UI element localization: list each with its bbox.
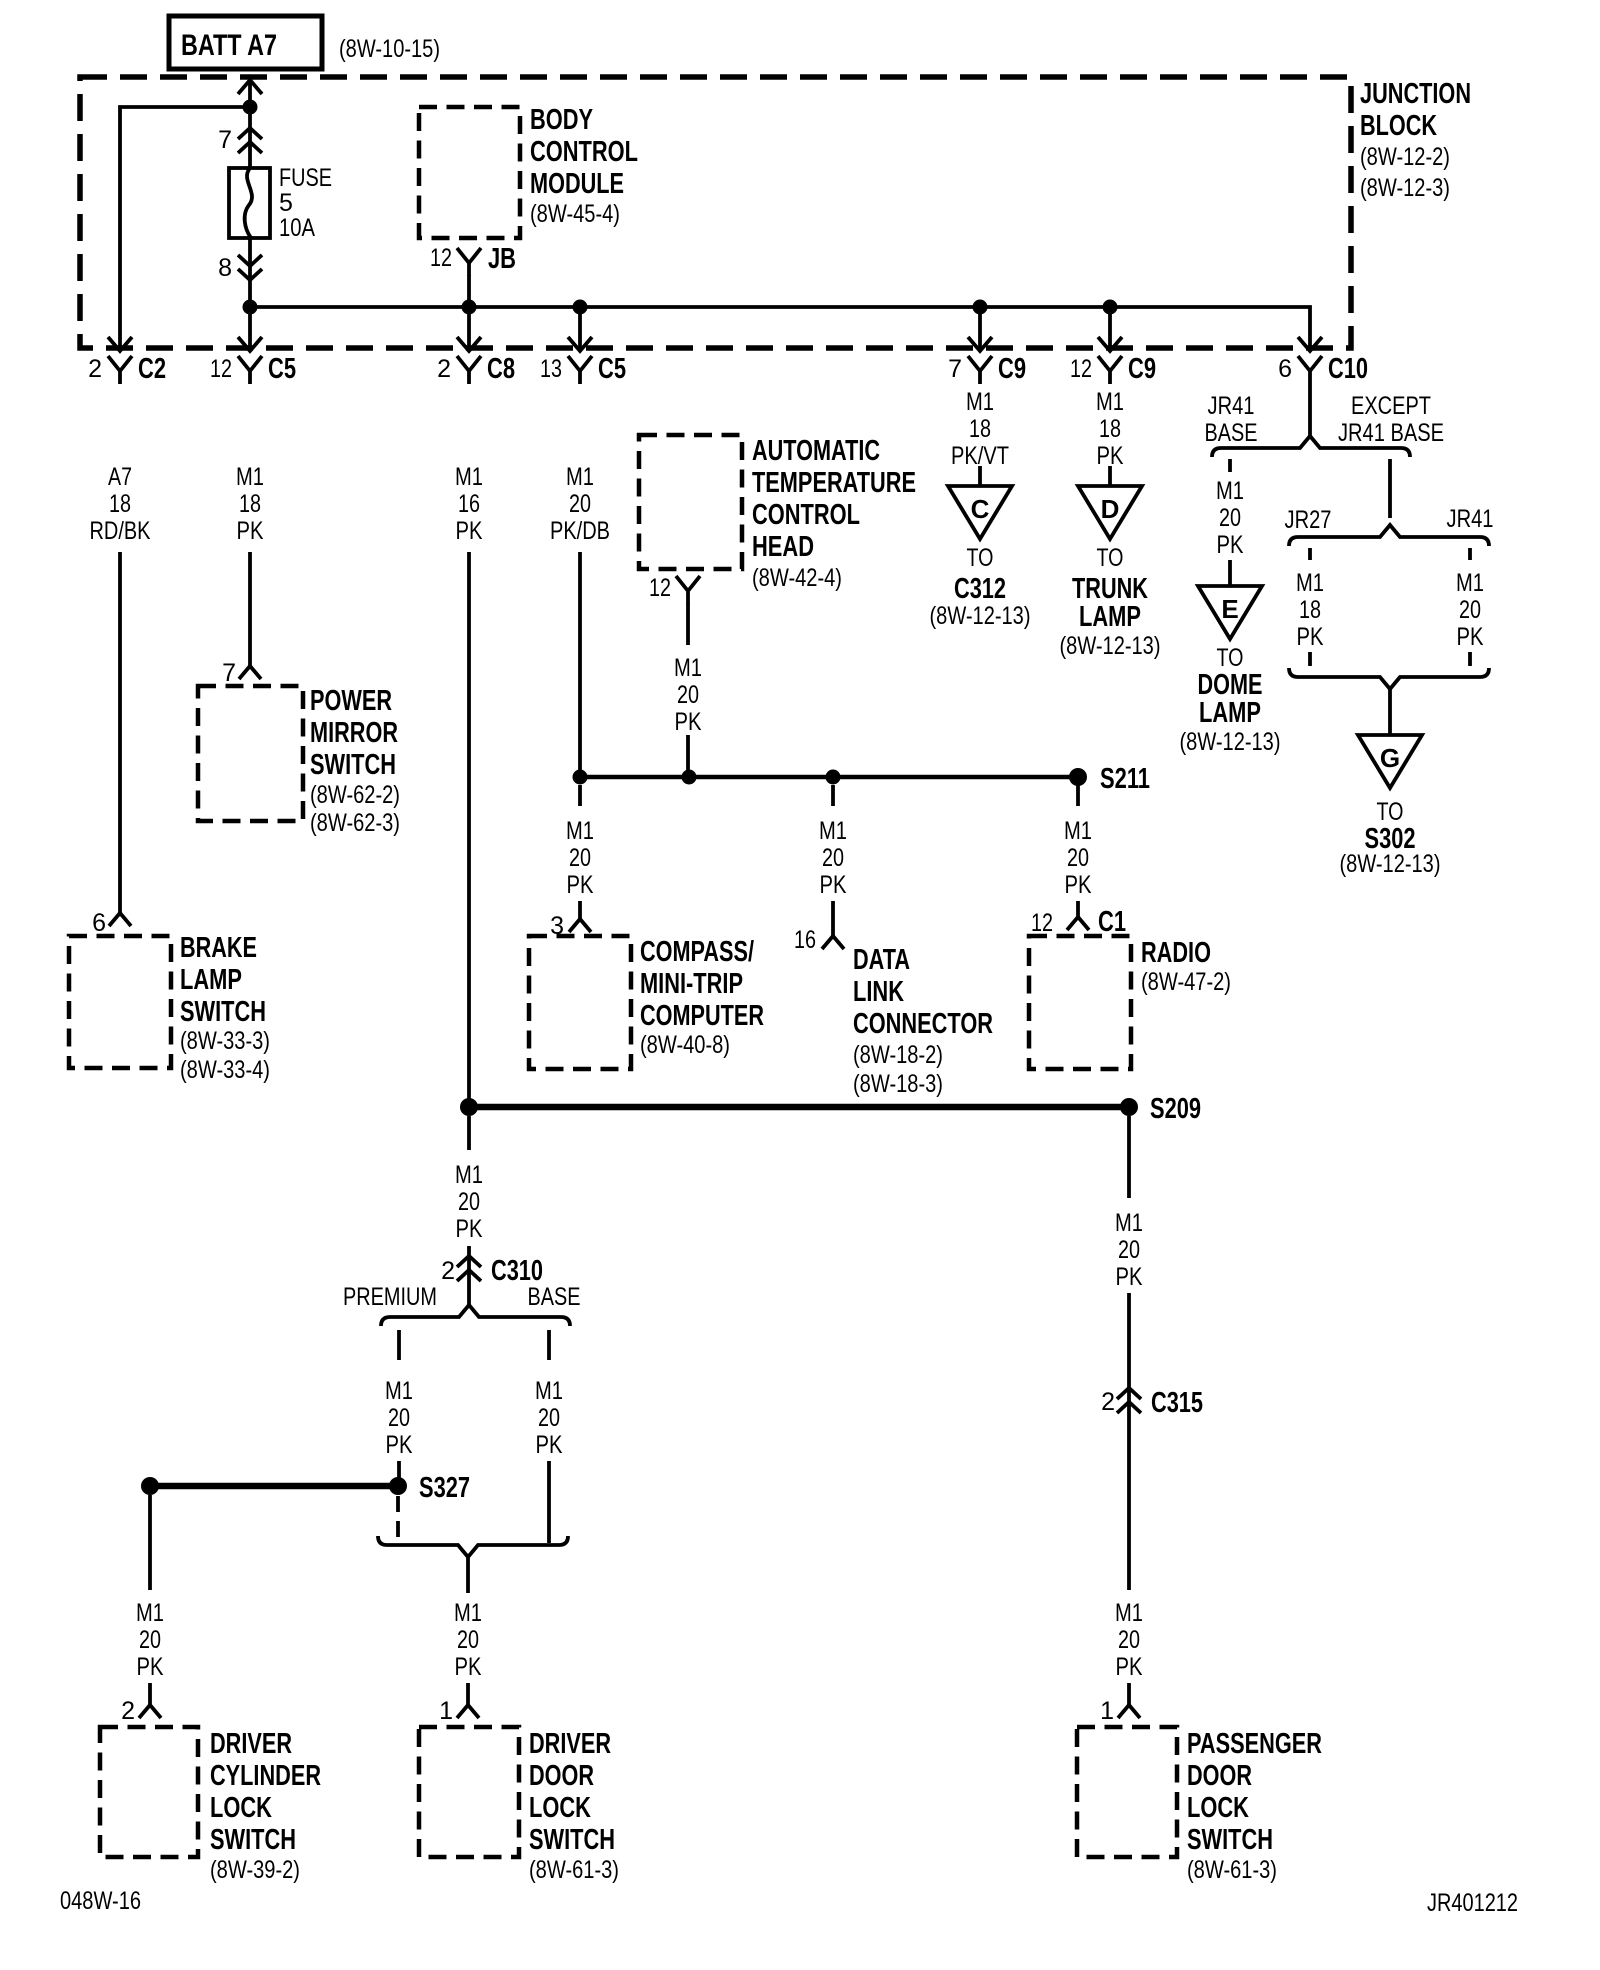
splice triangle D xyxy=(1078,486,1142,539)
arrow at C9 pin 12 xyxy=(1098,337,1122,351)
svg-text:(8W-12-13): (8W-12-13) xyxy=(930,602,1031,630)
svg-text:6: 6 xyxy=(1278,355,1292,383)
svg-text:PK: PK xyxy=(455,1653,482,1681)
driver cylinder lock switch label xyxy=(210,1728,321,1884)
node: rail at C5-13 xyxy=(573,770,588,785)
svg-text:PK: PK xyxy=(1457,623,1484,651)
destination label TO DOME LAMP xyxy=(1180,644,1281,756)
connector pin 7 power mirror switch xyxy=(222,659,261,687)
svg-text:D: D xyxy=(1101,494,1120,524)
svg-text:S211: S211 xyxy=(1100,763,1150,795)
wire dash: JR41 to merge xyxy=(1468,652,1472,666)
svg-text:M1: M1 xyxy=(385,1377,413,1405)
brace split PREMIUM/BASE xyxy=(381,1305,570,1326)
svg-text:HEAD: HEAD xyxy=(752,531,814,563)
wire label M1 20 PK (C310) xyxy=(455,1161,483,1243)
svg-text:(8W-61-3): (8W-61-3) xyxy=(529,1856,619,1884)
svg-text:C5: C5 xyxy=(268,353,296,385)
svg-text:PK: PK xyxy=(456,517,483,545)
wire stub: S209 to C310 xyxy=(467,1116,471,1150)
svg-text:C315: C315 xyxy=(1151,1387,1203,1419)
svg-text:COMPUTER: COMPUTER xyxy=(640,1000,764,1032)
wire label M1 20 PK (DLC) xyxy=(819,817,847,899)
svg-text:20: 20 xyxy=(569,490,591,518)
svg-text:M1: M1 xyxy=(1064,817,1092,845)
svg-text:PK: PK xyxy=(820,871,847,899)
wire: C9-7 to splice symbol C xyxy=(978,466,982,486)
splice triangle G xyxy=(1358,735,1422,788)
wire: bus to C8 xyxy=(467,307,471,349)
wire label M1 20 PK (compass) xyxy=(566,817,594,899)
wire: splice to connector C2 xyxy=(120,107,250,349)
svg-text:(8W-62-3): (8W-62-3) xyxy=(310,809,400,837)
pin 8 chevron xyxy=(238,255,262,280)
wire label M1 18 PK xyxy=(236,463,264,545)
svg-text:2: 2 xyxy=(121,1697,135,1725)
wire: premium branch to S327 xyxy=(397,1461,401,1486)
svg-text:18: 18 xyxy=(1299,596,1321,624)
wire: S209 to C315 xyxy=(1127,1116,1131,1198)
svg-text:(8W-33-4): (8W-33-4) xyxy=(180,1056,270,1084)
svg-text:SWITCH: SWITCH xyxy=(529,1824,615,1856)
svg-text:12: 12 xyxy=(430,244,452,272)
wire: C10 stem xyxy=(1308,384,1312,437)
svg-text:20: 20 xyxy=(458,1188,480,1216)
svg-text:LOCK: LOCK xyxy=(210,1792,272,1824)
svg-text:M1: M1 xyxy=(455,1161,483,1189)
wire: C8 to splice S209 xyxy=(467,552,471,1107)
svg-text:1: 1 xyxy=(1100,1697,1114,1725)
arrow into BATT A7 xyxy=(238,80,262,94)
svg-text:TEMPERATURE: TEMPERATURE xyxy=(752,467,916,499)
fuse label xyxy=(279,164,332,242)
splice rail wire S327 xyxy=(150,1483,398,1490)
passenger door lock switch label xyxy=(1187,1728,1322,1884)
wire: to driver door lock connector xyxy=(466,1683,470,1705)
svg-text:G: G xyxy=(1380,743,1400,773)
svg-text:LOCK: LOCK xyxy=(529,1792,591,1824)
destination label TO S302 xyxy=(1340,798,1441,878)
wire label M1 20 PK (passenger) xyxy=(1115,1599,1143,1681)
svg-text:M1: M1 xyxy=(1456,569,1484,597)
svg-text:DOOR: DOOR xyxy=(529,1760,594,1792)
wire: C2 to brake lamp switch xyxy=(118,552,122,913)
svg-text:M1: M1 xyxy=(535,1377,563,1405)
svg-text:12: 12 xyxy=(649,574,671,602)
svg-text:JUNCTION: JUNCTION xyxy=(1360,78,1471,110)
wire dash: S327 down 1 xyxy=(396,1496,400,1512)
wire: bus to C5 pin 13 xyxy=(578,307,582,349)
svg-text:CONTROL: CONTROL xyxy=(530,136,638,168)
svg-text:CONNECTOR: CONNECTOR xyxy=(853,1008,993,1040)
svg-text:TO: TO xyxy=(1097,544,1124,572)
svg-text:M1: M1 xyxy=(966,388,994,416)
connector pin 3 compass xyxy=(550,912,591,940)
svg-text:(8W-42-4): (8W-42-4) xyxy=(752,564,842,592)
svg-text:M1: M1 xyxy=(236,463,264,491)
wire label M1 18 PK (JR27) xyxy=(1296,569,1324,651)
arrow at C5 pin 13 xyxy=(568,337,592,351)
brake lamp switch box xyxy=(69,936,171,1068)
svg-text:M1: M1 xyxy=(454,1599,482,1627)
radio label xyxy=(1141,937,1231,996)
pin 7 chevron xyxy=(238,128,262,153)
svg-text:DRIVER: DRIVER xyxy=(529,1728,611,1760)
svg-text:PK: PK xyxy=(1097,442,1124,470)
wire: ATC head stem xyxy=(686,603,690,645)
driver door lock switch label xyxy=(529,1728,619,1884)
brace split at C10 xyxy=(1212,436,1410,457)
wire: to radio connector xyxy=(1076,901,1080,917)
connector C310 pin 2 xyxy=(441,1255,543,1287)
svg-text:20: 20 xyxy=(1459,596,1481,624)
svg-text:20: 20 xyxy=(822,844,844,872)
arrow at C10 xyxy=(1298,337,1322,351)
connector C5 pin 13 xyxy=(540,353,626,385)
wire: JB to bus xyxy=(467,275,471,307)
svg-text:DATA: DATA xyxy=(853,944,910,976)
svg-text:12: 12 xyxy=(1070,355,1092,383)
destination label TO C312 xyxy=(930,544,1031,630)
wire: fuse to bus xyxy=(248,238,252,307)
svg-text:048W-16: 048W-16 xyxy=(60,1887,141,1915)
svg-text:TO: TO xyxy=(967,544,994,572)
svg-text:5: 5 xyxy=(279,189,293,217)
svg-text:2: 2 xyxy=(1101,1388,1115,1416)
svg-text:20: 20 xyxy=(1118,1626,1140,1654)
wire label M1 20 PK/DB xyxy=(550,463,610,545)
svg-text:MODULE: MODULE xyxy=(530,168,624,200)
wire: S327 to driver cylinder lock xyxy=(148,1495,152,1590)
wire: BATT A7 feed xyxy=(248,80,252,107)
driver door lock switch box xyxy=(419,1727,519,1857)
svg-text:M1: M1 xyxy=(455,463,483,491)
svg-text:M1: M1 xyxy=(566,463,594,491)
node: S327 left xyxy=(141,1477,159,1495)
svg-text:AUTOMATIC: AUTOMATIC xyxy=(752,435,880,467)
svg-text:SWITCH: SWITCH xyxy=(310,749,396,781)
wire: to splice symbol E xyxy=(1228,560,1232,586)
svg-text:M1: M1 xyxy=(566,817,594,845)
svg-text:BATT A7: BATT A7 xyxy=(181,29,277,62)
splice triangle C xyxy=(948,486,1012,539)
brace merge premium/base xyxy=(378,1536,568,1557)
wire dash: JR27 to merge xyxy=(1308,652,1312,666)
wire: to compass connector xyxy=(578,901,582,919)
splice S211 xyxy=(1069,768,1087,786)
svg-text:RADIO: RADIO xyxy=(1141,937,1211,969)
wire stub: rail to DLC xyxy=(831,785,835,806)
node: bus at C9-12 xyxy=(1103,300,1118,315)
destination label TO TRUNK LAMP xyxy=(1060,544,1161,660)
wire: C5 to power mirror switch xyxy=(248,552,252,666)
svg-text:JR401212: JR401212 xyxy=(1427,1889,1518,1917)
svg-text:PK: PK xyxy=(137,1653,164,1681)
svg-text:(8W-10-15): (8W-10-15) xyxy=(339,35,440,63)
connector pin 2 driver cylinder lock switch xyxy=(121,1697,161,1725)
svg-text:20: 20 xyxy=(1219,504,1241,532)
wire stub: rail to compass xyxy=(578,785,582,806)
wire stub: S211 to radio xyxy=(1076,785,1080,806)
power mirror switch box xyxy=(198,686,303,821)
radio box xyxy=(1029,936,1131,1069)
svg-text:(8W-40-8): (8W-40-8) xyxy=(640,1031,730,1059)
svg-text:RD/BK: RD/BK xyxy=(90,517,151,545)
wire: EXCEPT JR41 BASE branch xyxy=(1388,459,1392,518)
wire label M1 20 PK (radio) xyxy=(1064,817,1092,899)
wire: through C315 xyxy=(1127,1293,1131,1590)
svg-text:20: 20 xyxy=(139,1626,161,1654)
wire: to DLC connector xyxy=(831,901,835,936)
node: bus at C9-7 xyxy=(973,300,988,315)
passenger door lock switch box xyxy=(1077,1727,1177,1857)
svg-text:18: 18 xyxy=(969,415,991,443)
svg-text:PK: PK xyxy=(237,517,264,545)
svg-text:10A: 10A xyxy=(279,214,315,242)
svg-text:PASSENGER: PASSENGER xyxy=(1187,1728,1322,1760)
svg-text:(8W-12-13): (8W-12-13) xyxy=(1180,728,1281,756)
junction block label xyxy=(1360,78,1471,202)
svg-text:7: 7 xyxy=(218,126,232,154)
connector JB pin 12 xyxy=(430,243,516,276)
svg-text:C9: C9 xyxy=(1128,353,1156,385)
svg-text:16: 16 xyxy=(458,490,480,518)
svg-text:PK: PK xyxy=(1217,531,1244,559)
svg-text:20: 20 xyxy=(677,681,699,709)
svg-text:20: 20 xyxy=(388,1404,410,1432)
wire label M1 20 PK (base) xyxy=(535,1377,563,1459)
wire label M1 20 PK (C315 top) xyxy=(1115,1209,1143,1291)
svg-text:18: 18 xyxy=(239,490,261,518)
wire dash: PREMIUM branch xyxy=(397,1330,401,1360)
svg-text:20: 20 xyxy=(1118,1236,1140,1264)
connector pin 1 passenger door lock switch xyxy=(1100,1697,1140,1725)
svg-text:JR41 BASE: JR41 BASE xyxy=(1338,419,1444,447)
svg-text:LINK: LINK xyxy=(853,976,904,1008)
svg-text:SWITCH: SWITCH xyxy=(210,1824,296,1856)
svg-text:PK: PK xyxy=(1116,1263,1143,1291)
svg-text:12: 12 xyxy=(1031,909,1053,937)
wire: ATC to splice rail xyxy=(686,735,690,777)
splice S209 xyxy=(1120,1098,1138,1116)
connector C8 pin 2 xyxy=(437,353,515,385)
node: rail at ATC xyxy=(682,770,697,785)
branch label EXCEPT JR41 BASE xyxy=(1338,392,1444,447)
svg-text:C9: C9 xyxy=(998,353,1026,385)
wire label M1 20 PK (cylinder) xyxy=(136,1599,164,1681)
compass/mini-trip computer box xyxy=(529,936,631,1069)
node: bus at C5 xyxy=(243,300,258,315)
svg-text:(8W-47-2): (8W-47-2) xyxy=(1141,968,1231,996)
splice S327 xyxy=(389,1477,407,1495)
svg-text:C: C xyxy=(971,494,990,524)
node: S209 at C8 wire xyxy=(460,1098,478,1116)
svg-text:C1: C1 xyxy=(1098,906,1126,938)
connector pin 1 driver door lock switch xyxy=(439,1697,479,1725)
wire: to C310 xyxy=(467,1246,471,1305)
svg-text:12: 12 xyxy=(210,355,232,383)
svg-text:M1: M1 xyxy=(1115,1599,1143,1627)
svg-text:MINI-TRIP: MINI-TRIP xyxy=(640,968,743,1000)
wire: C5 pin 13 to splice rail xyxy=(578,552,582,777)
automatic temperature control head box xyxy=(639,435,742,569)
svg-text:BODY: BODY xyxy=(530,104,593,136)
svg-text:M1: M1 xyxy=(1096,388,1124,416)
svg-text:C5: C5 xyxy=(598,353,626,385)
svg-text:(8W-12-13): (8W-12-13) xyxy=(1340,850,1441,878)
wire: bus to C9 pin 12 xyxy=(1108,307,1112,349)
connector pin 16 data link connector xyxy=(794,926,844,954)
bus wire inside junction block xyxy=(250,307,1310,349)
svg-text:SWITCH: SWITCH xyxy=(180,996,266,1028)
svg-text:LAMP: LAMP xyxy=(180,964,242,996)
svg-text:PK: PK xyxy=(1116,1653,1143,1681)
wire label M1 20 PK (premium) xyxy=(385,1377,413,1459)
svg-text:(8W-61-3): (8W-61-3) xyxy=(1187,1856,1277,1884)
splice rail wire S209 xyxy=(469,1104,1129,1111)
svg-text:SWITCH: SWITCH xyxy=(1187,1824,1273,1856)
svg-text:COMPASS/: COMPASS/ xyxy=(640,936,754,968)
connector C5 pin 12 xyxy=(210,353,296,385)
compass/mini-trip computer label xyxy=(640,936,764,1059)
svg-text:PK: PK xyxy=(675,708,702,736)
node: bus at C5-13 xyxy=(573,300,588,315)
wire: merge to splice symbol G xyxy=(1388,689,1392,735)
svg-text:C2: C2 xyxy=(138,353,166,385)
svg-text:PK: PK xyxy=(456,1215,483,1243)
svg-text:JR41: JR41 xyxy=(1447,505,1494,533)
svg-text:PK/DB: PK/DB xyxy=(550,517,610,545)
connector C2 pin 2 xyxy=(88,353,166,385)
connector pin 6 brake lamp switch xyxy=(92,909,131,937)
svg-text:20: 20 xyxy=(538,1404,560,1432)
svg-text:POWER: POWER xyxy=(310,685,392,717)
svg-text:TO: TO xyxy=(1377,798,1404,826)
svg-text:JR41: JR41 xyxy=(1208,392,1255,420)
wire: bus to C9 pin 7 xyxy=(978,307,982,349)
svg-text:CYLINDER: CYLINDER xyxy=(210,1760,321,1792)
wire dash: JR27 branch xyxy=(1308,548,1312,560)
branch label JR41 BASE xyxy=(1205,392,1258,447)
svg-text:16: 16 xyxy=(794,926,816,954)
svg-text:BRAKE: BRAKE xyxy=(180,932,257,964)
arrow at C9 pin 7 xyxy=(968,337,992,351)
connector C10 pin 6 xyxy=(1278,353,1368,385)
data link connector label xyxy=(853,944,993,1098)
wire: to driver cylinder lock connector xyxy=(148,1683,152,1705)
body control module label xyxy=(530,104,638,228)
connector C315 pin 2 xyxy=(1101,1387,1203,1419)
svg-text:(8W-62-2): (8W-62-2) xyxy=(310,781,400,809)
svg-text:2: 2 xyxy=(437,355,451,383)
splice triangle E xyxy=(1198,586,1262,639)
svg-text:(8W-39-2): (8W-39-2) xyxy=(210,1856,300,1884)
svg-text:C10: C10 xyxy=(1328,353,1368,385)
battery feed box BATT A7 xyxy=(169,16,322,69)
svg-text:2: 2 xyxy=(88,355,102,383)
svg-text:PK: PK xyxy=(1065,871,1092,899)
svg-text:LAMP: LAMP xyxy=(1079,601,1141,633)
wire label M1 20 PK (dome) xyxy=(1216,477,1244,559)
wire: base branch to merge xyxy=(547,1461,551,1543)
wire label M1 16 PK xyxy=(455,463,483,545)
svg-text:M1: M1 xyxy=(1216,477,1244,505)
svg-text:6: 6 xyxy=(92,909,106,937)
svg-text:7: 7 xyxy=(948,355,962,383)
svg-text:DRIVER: DRIVER xyxy=(210,1728,292,1760)
connector C1 pin 12 radio xyxy=(1031,906,1126,938)
arrow at C2 xyxy=(108,337,132,351)
wire: merge to driver door lock xyxy=(466,1557,470,1593)
svg-text:13: 13 xyxy=(540,355,562,383)
svg-text:(8W-12-13): (8W-12-13) xyxy=(1060,632,1161,660)
svg-text:E: E xyxy=(1221,594,1238,624)
svg-text:CONTROL: CONTROL xyxy=(752,499,860,531)
svg-text:1: 1 xyxy=(439,1697,453,1725)
svg-text:(8W-18-3): (8W-18-3) xyxy=(853,1070,943,1098)
svg-text:A7: A7 xyxy=(108,463,132,491)
arrow at C5 xyxy=(238,337,262,351)
svg-text:TO: TO xyxy=(1217,644,1244,672)
wire: C9-12 to splice symbol D xyxy=(1108,466,1112,486)
wire: bus to C5 xyxy=(248,307,252,349)
svg-text:FUSE: FUSE xyxy=(279,164,332,192)
driver cylinder lock switch box xyxy=(100,1727,198,1857)
svg-text:M1: M1 xyxy=(136,1599,164,1627)
brace merge JR27/JR41 xyxy=(1289,668,1489,689)
wire dash: JR41 BASE branch xyxy=(1228,459,1232,472)
svg-text:C312: C312 xyxy=(954,573,1006,605)
svg-text:(8W-12-3): (8W-12-3) xyxy=(1360,174,1450,202)
connector C9 pin 12 xyxy=(1070,353,1156,385)
svg-text:PREMIUM: PREMIUM xyxy=(343,1283,437,1311)
svg-text:PK: PK xyxy=(536,1431,563,1459)
svg-text:BLOCK: BLOCK xyxy=(1360,110,1437,142)
connector C9 pin 7 xyxy=(948,353,1026,385)
wire label M1 20 PK (driver door) xyxy=(454,1599,482,1681)
wire dash: BASE branch xyxy=(547,1330,551,1360)
svg-text:EXCEPT: EXCEPT xyxy=(1351,392,1431,420)
svg-text:18: 18 xyxy=(109,490,131,518)
svg-text:2: 2 xyxy=(441,1257,455,1285)
svg-text:C8: C8 xyxy=(487,353,515,385)
node: bus at C8 xyxy=(462,300,477,315)
brake lamp switch label xyxy=(180,932,270,1084)
svg-text:M1: M1 xyxy=(819,817,847,845)
svg-text:(8W-33-3): (8W-33-3) xyxy=(180,1027,270,1055)
svg-text:M1: M1 xyxy=(1296,569,1324,597)
wire: splice to fuse xyxy=(248,107,252,168)
svg-text:20: 20 xyxy=(569,844,591,872)
arrow at C8 xyxy=(457,337,481,351)
power mirror switch label xyxy=(310,685,400,837)
connector pin 12 ATC head xyxy=(649,574,700,604)
wire label M1 20 PK (ATC) xyxy=(674,654,702,736)
splice rail wire S211 xyxy=(580,775,1078,780)
wire label M1 20 PK (JR41) xyxy=(1456,569,1484,651)
svg-text:PK: PK xyxy=(1297,623,1324,651)
svg-text:LAMP: LAMP xyxy=(1199,697,1261,729)
svg-text:PK: PK xyxy=(386,1431,413,1459)
svg-text:BASE: BASE xyxy=(1205,419,1258,447)
svg-text:JR27: JR27 xyxy=(1285,506,1332,534)
svg-text:(8W-12-2): (8W-12-2) xyxy=(1360,143,1450,171)
body control module box xyxy=(419,107,520,238)
svg-text:DOOR: DOOR xyxy=(1187,1760,1252,1792)
svg-text:20: 20 xyxy=(1067,844,1089,872)
node: splice below BATT A7 xyxy=(243,100,258,115)
svg-text:7: 7 xyxy=(222,659,236,687)
